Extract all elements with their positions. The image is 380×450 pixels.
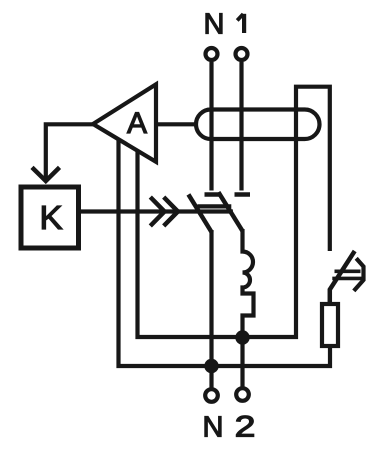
- svg-text:N: N: [203, 412, 224, 444]
- svg-text:K: K: [39, 200, 63, 237]
- svg-text:N: N: [204, 9, 225, 41]
- svg-text:2: 2: [235, 410, 256, 443]
- svg-text:A: A: [127, 107, 147, 140]
